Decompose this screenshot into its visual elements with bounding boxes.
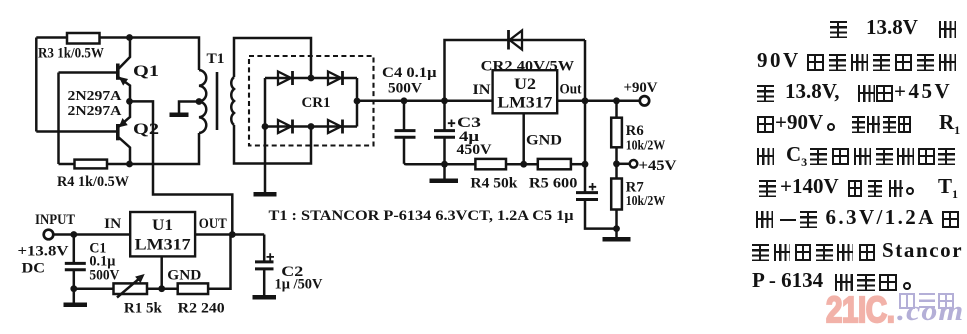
wire U2 out — [557, 100, 640, 103]
svg-text:+45V: +45V — [639, 158, 678, 174]
wire R6 top — [615, 101, 618, 118]
node C1 top — [70, 231, 77, 238]
svg-text:2N297A: 2N297A — [68, 89, 123, 104]
resistor R6 — [611, 118, 622, 148]
resistor R1 (variable) — [114, 275, 148, 298]
node ground stub — [441, 161, 448, 168]
node C4 top — [401, 97, 408, 104]
svg-text:Q1: Q1 — [133, 63, 159, 80]
svg-text:500V: 500V — [89, 268, 119, 284]
capacitor C2 — [255, 235, 274, 296]
svg-text:450V: 450V — [457, 142, 493, 158]
terminal +90V — [640, 96, 649, 105]
svg-text:GND: GND — [526, 133, 562, 149]
node bridge right (DC out) — [354, 98, 361, 105]
svg-text:T1: T1 — [207, 51, 225, 67]
terminal +45V — [617, 160, 638, 168]
wire bridge ground drop — [264, 127, 267, 193]
svg-text:GND: GND — [167, 268, 201, 284]
node C1 bottom — [70, 285, 77, 292]
svg-text:U1: U1 — [152, 217, 173, 234]
wire R4-R5 — [506, 163, 538, 166]
plus sign C2 — [267, 253, 275, 261]
capacitor C5 — [576, 193, 617, 229]
wire Q2 base — [36, 130, 116, 133]
transistor Q2 — [118, 101, 130, 164]
bridge bottom rail — [265, 125, 357, 128]
node T1 center tap — [196, 98, 203, 105]
wire R7 bottom — [615, 210, 618, 238]
svg-text:R1 5k: R1 5k — [124, 301, 163, 317]
paragraph line 5 — [0, 148, 1, 168]
paragraph line 2 — [0, 54, 1, 74]
svg-text:CR2 40V/5W: CR2 40V/5W — [481, 59, 575, 75]
wire top rail to transformer — [130, 38, 200, 71]
svg-text:OUT: OUT — [199, 216, 227, 232]
resistor R3 — [36, 33, 129, 44]
svg-text:R5 600: R5 600 — [529, 176, 578, 192]
paragraph line 7 — [0, 211, 1, 231]
node R7/C5 bottom — [613, 225, 620, 232]
node bridge top-center — [308, 75, 315, 82]
wire R1-R2 — [147, 287, 178, 290]
wire U1 OUT — [195, 233, 264, 236]
capacitor C1 — [65, 235, 86, 303]
diode CR2 bypass top wire — [445, 40, 586, 101]
node bridge bottom-left — [262, 123, 269, 130]
node U2 GND — [520, 161, 527, 168]
diode CR2 — [509, 30, 523, 50]
wire R6 bottom — [615, 147, 618, 178]
wire U1 GND pin — [160, 256, 163, 288]
node bridge bottom-center — [308, 123, 315, 130]
svg-text:DC: DC — [22, 261, 46, 277]
wire left feedback vertical (R3 left to Q2 base) — [35, 38, 38, 132]
ground bar output divider — [603, 237, 631, 242]
wire CR2 column down to C5 — [584, 101, 587, 192]
node U2 out / CR2 — [582, 97, 589, 104]
wire bottom adj rail — [74, 287, 114, 290]
svg-text:R4 50k: R4 50k — [470, 176, 518, 192]
diode CR1-b — [328, 71, 343, 85]
wire bottom rail to transformer primary bottom — [130, 133, 200, 164]
diode CR1-a — [278, 71, 293, 85]
svg-text:IN: IN — [104, 216, 122, 232]
svg-text:+90V: +90V — [624, 80, 659, 96]
svg-text:2N297A: 2N297A — [68, 104, 123, 119]
watermark 21IC — [826, 293, 895, 327]
node U1 OUT — [229, 231, 236, 238]
wire node to U1 OUT (down right column) — [130, 101, 233, 234]
watermark dianziwang — [898, 292, 900, 294]
svg-text:R4 1k/0.5W: R4 1k/0.5W — [57, 174, 129, 190]
wire input to U1 — [52, 233, 130, 236]
plus sign C5 — [589, 183, 596, 191]
svg-text:IN: IN — [473, 82, 492, 98]
resistor R4 — [59, 160, 130, 169]
transformer T1 primary winding — [199, 70, 206, 133]
paragraph line 3 — [0, 85, 1, 105]
wire DC bus to U2 IN — [357, 100, 493, 103]
svg-text:1μ /50V: 1μ /50V — [275, 277, 324, 293]
svg-text:C4 0.1μ: C4 0.1μ — [382, 65, 437, 81]
wire ground stub — [443, 164, 446, 178]
wire Q1 base — [59, 71, 117, 74]
bridge left rail — [264, 78, 267, 127]
transformer T1 core — [216, 72, 219, 130]
resistor R4 50k — [475, 159, 506, 169]
svg-text:INPUT: INPUT — [35, 212, 75, 228]
op-amp U2 regulator box — [493, 70, 558, 113]
paragraph line 8 — [0, 244, 1, 264]
node Q2 emitter — [126, 161, 133, 168]
bridge right rail — [356, 78, 359, 127]
paragraph line 4 — [0, 116, 1, 136]
wire R2 up to OUT — [208, 235, 230, 289]
svg-text:10k/2W: 10k/2W — [626, 193, 666, 208]
svg-text:500V: 500V — [388, 81, 423, 97]
svg-text:T1 : STANCOR P-6134 6.3VCT,: T1 : STANCOR P-6134 6.3VCT, 1.2A C5 1μ — [269, 208, 575, 224]
resistor R5 600 — [538, 159, 571, 169]
diode CR1-d — [328, 120, 343, 134]
wire secondary top to bridge top-center — [234, 38, 311, 78]
svg-text:R3 1k/0.5W: R3 1k/0.5W — [38, 46, 104, 62]
terminal INPUT — [44, 230, 54, 240]
svg-text:10k/2W: 10k/2W — [626, 138, 666, 153]
wire R5 right to CR2 column — [571, 163, 585, 166]
wire U2 GND pin — [522, 113, 525, 164]
svg-text:LM317: LM317 — [135, 237, 191, 254]
svg-text:CR1: CR1 — [302, 95, 331, 111]
svg-text:LM317: LM317 — [497, 95, 552, 112]
resistor R7 — [611, 179, 622, 210]
ground bar bridge — [254, 192, 277, 197]
wire center tap lead — [179, 102, 199, 114]
diode CR1-c — [278, 120, 293, 134]
wire adj bottom rail — [404, 163, 475, 166]
wire secondary bottom to bridge bottom-center — [234, 125, 311, 164]
bridge CR1 dashed box — [249, 56, 374, 146]
node +90V branch — [613, 97, 620, 104]
plus sign C3 — [448, 120, 455, 128]
ground bar center tap — [170, 113, 189, 118]
node C3 top — [441, 97, 448, 104]
svg-text:+13.8V: +13.8V — [18, 244, 69, 260]
op-amp U1 regulator box — [130, 212, 195, 256]
capacitor C4 — [395, 101, 416, 164]
capacitor C3 — [434, 101, 455, 164]
ground bar C2 — [253, 295, 277, 300]
paragraph line 6 — [0, 180, 1, 200]
svg-text:Out: Out — [560, 82, 582, 98]
paragraph line 9 — [0, 274, 1, 294]
node R5/C5 — [582, 161, 589, 168]
transformer T1 secondary winding — [231, 77, 234, 125]
resistor R2 — [178, 283, 208, 294]
paragraph line 1 — [0, 21, 1, 41]
transistor Q1 — [118, 38, 130, 102]
svg-text:R2 240: R2 240 — [178, 301, 225, 317]
node Q1 emitter / Q2 collector — [126, 98, 133, 105]
bridge top rail — [265, 77, 357, 80]
wire inner feedback vertical (Q1 base to R4 left) — [57, 73, 60, 165]
node U1 GND junction — [158, 285, 165, 292]
watermark .com — [897, 295, 964, 328]
ground bar input — [64, 302, 88, 307]
svg-text:U2: U2 — [514, 76, 536, 93]
node +45V — [613, 160, 620, 167]
ground bar C3/C4 — [430, 178, 459, 183]
node Q1 collector — [126, 34, 133, 41]
svg-text:Q2: Q2 — [133, 121, 159, 138]
